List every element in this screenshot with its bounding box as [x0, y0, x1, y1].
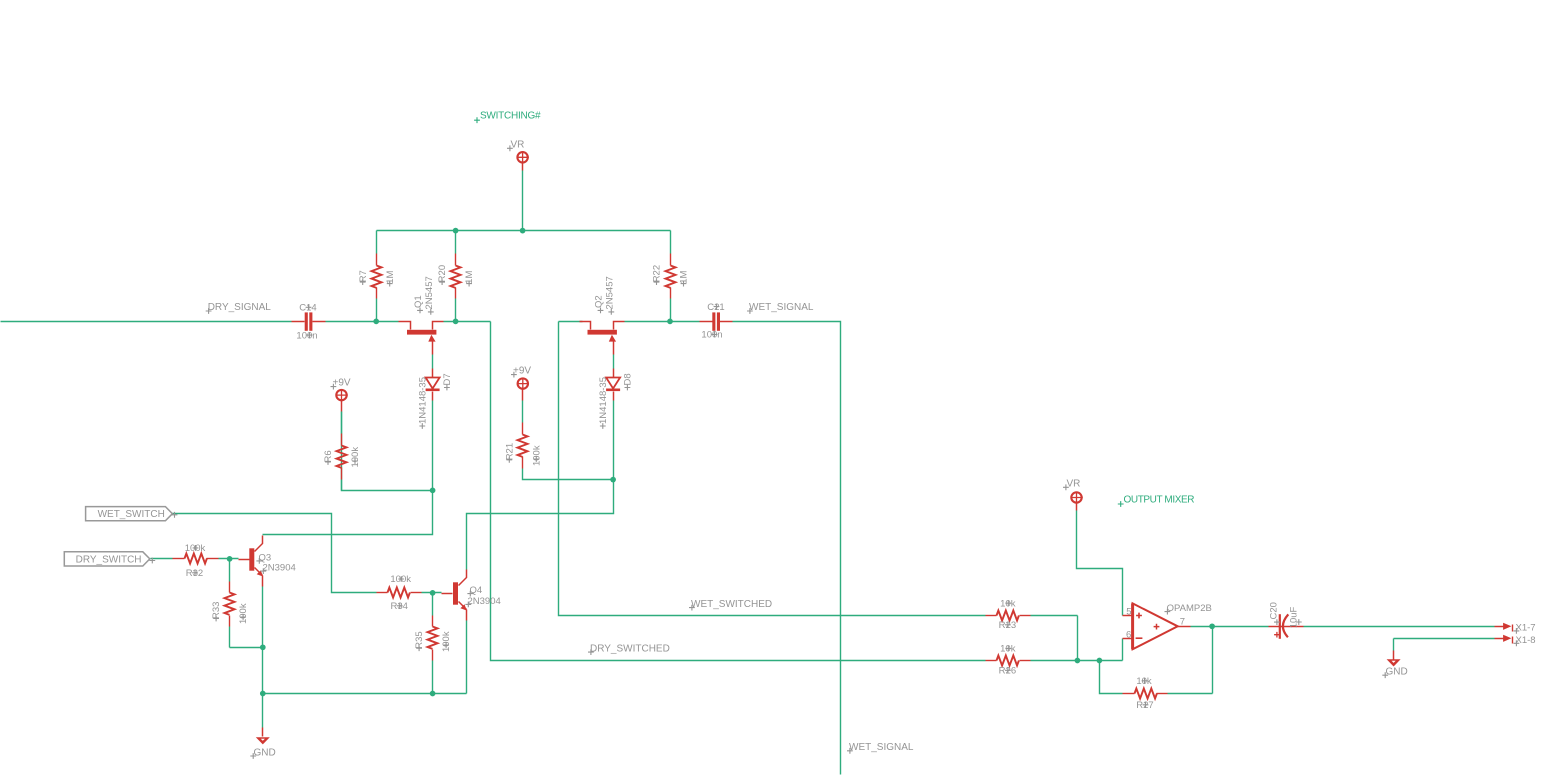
svg-text:D7: D7 — [442, 373, 453, 385]
svg-text:1M: 1M — [679, 271, 690, 284]
svg-text:SWITCHING#: SWITCHING# — [480, 111, 541, 122]
svg-text:1M: 1M — [385, 271, 396, 284]
svg-text:R20: R20 — [437, 265, 448, 282]
svg-text:GND: GND — [1386, 667, 1408, 678]
svg-text:R21: R21 — [504, 443, 515, 460]
svg-text:1N4148-35: 1N4148-35 — [598, 377, 609, 424]
svg-text:100n: 100n — [296, 330, 317, 341]
svg-text:OUTPUT MIXER: OUTPUT MIXER — [1124, 495, 1195, 506]
svg-text:R33: R33 — [211, 602, 222, 619]
svg-text:100k: 100k — [238, 603, 249, 624]
svg-text:1M: 1M — [464, 271, 475, 284]
svg-text:WET_SWITCH: WET_SWITCH — [98, 509, 165, 520]
svg-text:1N4148-35: 1N4148-35 — [417, 377, 428, 424]
svg-text:5: 5 — [1126, 607, 1131, 618]
svg-text:2N5457: 2N5457 — [424, 276, 435, 309]
svg-text:C20: C20 — [1269, 602, 1280, 619]
svg-text:DRY_SWITCH: DRY_SWITCH — [76, 554, 142, 565]
svg-text:R7: R7 — [358, 270, 369, 282]
svg-text:7: 7 — [1180, 617, 1185, 628]
svg-text:10uF: 10uF — [1289, 606, 1300, 628]
svg-text:Q4: Q4 — [470, 585, 483, 596]
svg-text:WET_SIGNAL: WET_SIGNAL — [749, 302, 814, 313]
svg-text:R6: R6 — [323, 450, 334, 462]
svg-text:VR: VR — [1067, 479, 1081, 490]
svg-text:100k: 100k — [350, 447, 361, 468]
svg-text:2N3904: 2N3904 — [468, 596, 501, 607]
svg-text:100n: 100n — [701, 330, 722, 341]
svg-text:100k: 100k — [531, 445, 542, 466]
svg-text:Q2: Q2 — [594, 295, 605, 308]
svg-text:X1-8: X1-8 — [1516, 635, 1536, 646]
svg-text:GND: GND — [254, 747, 276, 758]
svg-text:X1-7: X1-7 — [1516, 623, 1536, 634]
svg-text:6: 6 — [1126, 629, 1131, 640]
svg-text:D8: D8 — [623, 373, 634, 385]
svg-text:2N3904: 2N3904 — [263, 563, 296, 574]
svg-text:Q1: Q1 — [413, 295, 424, 308]
svg-text:OPAMP2B: OPAMP2B — [1167, 603, 1212, 614]
svg-text:100k: 100k — [441, 631, 452, 652]
svg-text:DRY_SWITCHED: DRY_SWITCHED — [590, 643, 670, 654]
svg-text:WET_SIGNAL: WET_SIGNAL — [849, 742, 914, 753]
svg-text:R35: R35 — [414, 631, 425, 648]
svg-text:R22: R22 — [652, 265, 663, 282]
svg-text:WET_SWITCHED: WET_SWITCHED — [691, 599, 772, 610]
svg-text:2N5457: 2N5457 — [605, 276, 616, 309]
svg-text:DRY_SIGNAL: DRY_SIGNAL — [208, 302, 272, 313]
